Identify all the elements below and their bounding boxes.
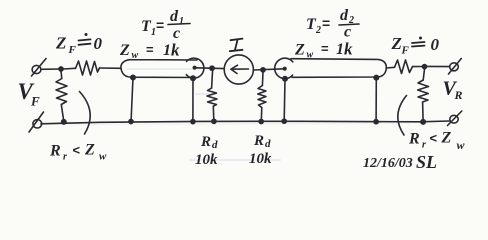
svg-text:1: 1 [336, 41, 344, 58]
terminal bottom-left [29, 112, 44, 132]
svg-text:Z: Z [294, 42, 305, 59]
wire drop T2-right [375, 78, 377, 121]
svg-text:F: F [401, 45, 410, 57]
node [374, 120, 378, 124]
resistor ZF-right (series) [395, 60, 413, 74]
svg-text:Z: Z [119, 42, 130, 59]
svg-text:12/16/03: 12/16/03 [363, 156, 413, 171]
transmission line T2 body [291, 59, 386, 78]
svg-text:=: = [321, 41, 329, 56]
svg-text:c: c [344, 24, 351, 41]
svg-text:d: d [340, 7, 349, 24]
wire [387, 66, 395, 69]
svg-text:r: r [422, 140, 426, 151]
wire drop to Rr-right [423, 69, 424, 80]
wire [422, 102, 425, 121]
svg-text:R: R [408, 131, 420, 148]
node [191, 120, 195, 124]
transmission line T1 end circle [186, 58, 204, 78]
transmission line T1 body [121, 60, 197, 78]
svg-text:R: R [49, 143, 61, 160]
wire drop T2-left [283, 79, 286, 121]
node J2 [210, 66, 214, 70]
resistor Rd1 [207, 88, 217, 106]
node [191, 76, 195, 80]
svg-text:w: w [99, 151, 107, 163]
wire [63, 67, 76, 70]
node [282, 119, 286, 123]
label Rr<Zw right [408, 130, 466, 153]
node [131, 75, 135, 79]
svg-text:<: < [430, 131, 438, 146]
label ZF=0 left [55, 33, 103, 56]
label I [230, 39, 243, 52]
node J4 [422, 65, 426, 69]
svg-text:SL: SL [416, 152, 437, 172]
svg-text:F: F [30, 94, 40, 109]
svg-text:F: F [68, 44, 77, 56]
svg-text:w: w [307, 50, 314, 61]
label ZF=0 right [391, 34, 440, 57]
svg-text:10k: 10k [195, 152, 218, 168]
wire drop to Rd1 [212, 70, 213, 88]
leader arc left [80, 92, 91, 135]
label T1 = d1/c [141, 8, 190, 42]
svg-text:=: = [156, 17, 164, 33]
svg-text:k: k [344, 40, 353, 59]
leader arc right [398, 96, 407, 136]
svg-text:2: 2 [315, 25, 321, 36]
wire [260, 108, 263, 121]
wire [100, 67, 122, 69]
wire [413, 66, 424, 68]
svg-text:Z: Z [84, 142, 95, 159]
label date 12/16/03 SL [363, 152, 437, 172]
svg-text:R: R [454, 88, 463, 102]
resistor Rr-right [418, 80, 429, 102]
svg-text:R: R [200, 134, 211, 150]
svg-text:c: c [173, 25, 180, 42]
svg-text:0: 0 [94, 34, 103, 53]
node rail-Rd2 [259, 119, 263, 123]
wire [254, 69, 285, 70]
svg-text:10k: 10k [249, 151, 272, 167]
svg-text:d: d [265, 138, 271, 150]
svg-text:1: 1 [163, 42, 171, 59]
resistor ZF-left (series) [76, 61, 100, 75]
svg-text:=: = [146, 42, 154, 57]
wire [427, 65, 450, 67]
label VR [443, 78, 463, 103]
current source U1 [224, 55, 253, 84]
svg-text:R: R [253, 133, 264, 149]
faint scan artifact [70, 69, 410, 160]
label Zw=1k left [119, 41, 180, 62]
resistor Rr-left [56, 71, 67, 121]
svg-text:w: w [132, 50, 139, 61]
svg-text:0: 0 [431, 35, 440, 54]
node J3 [261, 68, 265, 72]
node [283, 77, 287, 81]
terminal top-left [32, 59, 47, 77]
node rail-Rr-left [62, 120, 66, 124]
label T2 = d2/c [306, 7, 359, 41]
node rail-Rr-right [421, 120, 425, 124]
svg-text:d: d [170, 8, 179, 25]
svg-text:k: k [171, 41, 180, 60]
node [129, 119, 133, 123]
terminal bottom-right [448, 111, 462, 126]
svg-text:d: d [212, 139, 218, 151]
wire drop to Rd2 [261, 72, 264, 86]
wire [212, 106, 215, 120]
svg-text:Z: Z [391, 34, 402, 53]
node rail-Rd1 [212, 119, 216, 123]
svg-text:Z: Z [441, 130, 452, 147]
transmission line T2 end circle [275, 58, 293, 78]
node J1 [59, 67, 63, 71]
label VF [18, 79, 41, 109]
svg-text:w: w [457, 138, 466, 152]
bottom rail [41, 121, 450, 124]
label Rr<Zw left [49, 142, 107, 163]
wire drop T1-left [131, 78, 133, 121]
svg-text:r: r [63, 152, 67, 163]
wire [41, 68, 60, 70]
wire drop T1-right [192, 78, 194, 120]
wire [196, 67, 224, 70]
resistor Rd2 [258, 86, 266, 108]
svg-text:=: = [322, 15, 330, 31]
label Rd2 10k [249, 133, 272, 167]
svg-text:<: < [73, 143, 81, 158]
terminal top-right [449, 59, 462, 75]
label Zw=1k right [294, 40, 353, 61]
svg-text:Z: Z [55, 34, 66, 53]
node [374, 75, 378, 79]
label Rd1 10k [195, 134, 218, 168]
